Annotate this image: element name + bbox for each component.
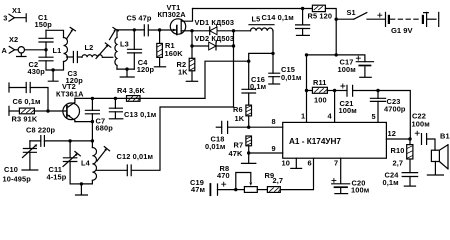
svg-text:L1: L1: [53, 46, 62, 55]
wire pin9: [249, 152, 283, 154]
capacitor C8: [41, 136, 45, 147]
node C14 top junction: [301, 7, 304, 10]
svg-text:100м: 100м: [412, 119, 430, 128]
svg-text:12: 12: [388, 129, 396, 138]
svg-text:C6 0,1м: C6 0,1м: [13, 97, 41, 106]
ground (R2): [186, 80, 197, 82]
wire C5 to VT1 gate: [160, 29, 177, 31]
node VD1 right junction: [232, 29, 235, 32]
svg-text:0,1м: 0,1м: [250, 82, 266, 91]
svg-text:47м: 47м: [191, 185, 205, 194]
node C7 top junction: [91, 97, 94, 100]
capacitor C20: [332, 178, 350, 193]
wire VT2 emitter: [75, 121, 93, 123]
wire VT2 collector feed (crosses VD column): [205, 61, 249, 98]
capacitor C17: [336, 55, 373, 77]
svg-text:2,7: 2,7: [393, 159, 404, 168]
svg-text:100: 100: [314, 96, 327, 105]
resistor R9: [257, 187, 280, 193]
svg-text:R10: R10: [391, 146, 405, 155]
wire collector rail: [75, 97, 205, 99]
svg-text:C12 0,01м: C12 0,01м: [117, 152, 154, 161]
capacitor C19: [210, 182, 235, 195]
wire L3 bottom rail: [117, 68, 134, 70]
svg-text:0,01м: 0,01м: [281, 73, 301, 82]
svg-text:7: 7: [334, 158, 338, 167]
wire VD column: [191, 31, 193, 46]
svg-text:X1: X1: [12, 6, 21, 15]
inductor L5: [234, 25, 275, 54]
ground (C20): [335, 193, 348, 195]
svg-text:5: 5: [372, 112, 376, 121]
connector X1: [9, 14, 26, 22]
node R7 bottom junction: [247, 151, 250, 154]
wire L1 bottom to ground node: [53, 62, 63, 71]
wire pin8: [249, 126, 283, 128]
capacitor C21: [335, 84, 378, 96]
wire bootstrap C21 to pin 12: [378, 91, 410, 140]
svg-text:КП302А: КП302А: [158, 10, 187, 19]
svg-text:1K: 1K: [178, 68, 188, 77]
ground (L3/C4): [120, 69, 134, 77]
connector X2: [9, 46, 26, 56]
svg-text:R3 91K: R3 91K: [12, 114, 38, 123]
capacitor C14: [296, 9, 310, 36]
ground (tank): [48, 70, 58, 81]
svg-text:3: 3: [3, 14, 7, 23]
capacitor C3: [73, 52, 82, 63]
wire C1 top to L1 top: [46, 30, 64, 37]
svg-text:G1 9V: G1 9V: [391, 26, 413, 35]
svg-text:X2: X2: [9, 35, 18, 44]
ground (R7): [242, 153, 256, 163]
wire L5 bottom to C16 column: [249, 53, 273, 89]
svg-text:6: 6: [308, 158, 312, 167]
svg-text:8: 8: [272, 117, 276, 126]
resistor R10: [407, 139, 413, 173]
switch S1: [335, 13, 386, 21]
svg-text:470: 470: [217, 171, 230, 180]
capacitor C13: [109, 98, 122, 118]
svg-text:C14 0,1м: C14 0,1м: [262, 13, 294, 22]
capacitor C5: [144, 25, 159, 36]
svg-text:10-495p: 10-495p: [3, 175, 32, 184]
capacitor C16: [242, 89, 256, 105]
ground (pin10): [291, 167, 302, 169]
svg-text:S1: S1: [347, 8, 356, 17]
svg-text:L4: L4: [81, 159, 91, 168]
wire antenna to C1/C2 node: [25, 49, 47, 51]
svg-text:100м: 100м: [339, 106, 357, 115]
wire pin 10 ground: [295, 158, 297, 168]
ground (L4/C11): [76, 184, 88, 195]
node R8/C19 junction: [234, 188, 237, 191]
svg-text:150p: 150p: [35, 20, 53, 29]
ground (C14): [297, 34, 310, 36]
capacitor C24: [402, 173, 417, 186]
node pin4/C21 junction: [333, 89, 336, 92]
capacitor C15: [269, 53, 280, 83]
resistor R1: [157, 30, 163, 66]
transistor VT1: [170, 9, 192, 35]
node emitter junction: [91, 120, 94, 123]
node L5 bottom junction: [271, 52, 274, 55]
node C23 top junction: [376, 89, 379, 92]
svg-text:4-15p: 4-15p: [47, 173, 67, 182]
capacitor C10 (tuning): [22, 141, 38, 170]
wire top L3 to C5: [117, 29, 144, 31]
node R10 top junction: [408, 137, 411, 140]
transistor VT2: [48, 98, 80, 121]
svg-text:100м: 100м: [338, 65, 356, 74]
node bottom ground junction: [80, 182, 83, 185]
svg-text:VD2 КД503: VD2 КД503: [195, 34, 235, 43]
svg-text:430p: 430p: [28, 67, 46, 76]
trimmer arrow L4: [97, 147, 110, 161]
inductor L1: [64, 38, 68, 62]
diode VD2: [192, 42, 234, 50]
wire pin 4: [334, 91, 336, 123]
resistor R5: [312, 5, 336, 19]
ground (R1): [154, 66, 165, 68]
svg-text:R6: R6: [233, 105, 243, 114]
ground (B1): [427, 174, 443, 176]
svg-text:120p: 120p: [137, 65, 155, 74]
op-amp IC A1 К174УН7: [283, 122, 387, 158]
capacitor C4: [128, 30, 142, 69]
ground (C24): [404, 185, 415, 187]
svg-text:C13 0,1м: C13 0,1м: [124, 110, 156, 119]
svg-text:L2: L2: [85, 43, 94, 52]
svg-text:A1 - К174УН7: A1 - К174УН7: [289, 137, 341, 146]
svg-text:0,1м: 0,1м: [383, 178, 399, 187]
battery G1: [378, 12, 439, 26]
node tank ground junction: [51, 68, 54, 71]
svg-text:КТ361А: КТ361А: [56, 90, 84, 99]
resistor R7: [246, 136, 252, 153]
capacitor C22: [415, 131, 435, 150]
svg-text:100м: 100м: [351, 186, 369, 195]
node supply junction: [335, 53, 338, 56]
trimmer arrow L3: [110, 28, 119, 40]
svg-text:1: 1: [301, 112, 305, 121]
svg-text:R4 3,6K: R4 3,6K: [117, 86, 145, 95]
svg-text:L3: L3: [120, 39, 129, 48]
resistor R4: [127, 96, 141, 102]
inductor L3: [115, 30, 117, 69]
node R11 left junction: [305, 89, 308, 92]
wire L1 tap to C3: [67, 56, 74, 58]
svg-text:0,01м: 0,01м: [205, 142, 225, 151]
node VT2 base junction: [46, 109, 49, 112]
wire pin 7: [340, 158, 342, 183]
node volume divider junction: [247, 126, 250, 129]
wire bottom rail C10-C8-C11-L4: [30, 140, 93, 142]
node C11 top junction: [68, 139, 71, 142]
svg-text:9: 9: [272, 144, 276, 153]
svg-text:1K: 1K: [235, 114, 245, 123]
ground (C13): [109, 118, 122, 120]
ground (C15): [269, 83, 280, 85]
wire pin 12: [386, 138, 410, 140]
capacitor C11 (trimmer): [63, 141, 80, 184]
capacitor C6: [9, 83, 48, 112]
speaker B1: [431, 145, 448, 175]
trimmer arrow L2: [96, 43, 111, 59]
svg-text:47K: 47K: [229, 149, 243, 158]
resistor R6: [246, 105, 252, 127]
capacitor C1: [39, 30, 53, 50]
diode VD1: [192, 27, 234, 35]
svg-text:L5: L5: [252, 15, 261, 24]
node L3/C4 ground junction: [125, 67, 128, 70]
svg-text:C5 47p: C5 47p: [127, 14, 152, 23]
inductor L2: [82, 55, 113, 58]
wire C11/L4 bottom: [70, 183, 81, 185]
svg-text:A: A: [2, 46, 8, 55]
inductor L4: [81, 141, 96, 184]
node VD1 left junction: [190, 29, 193, 32]
svg-text:4700p: 4700p: [384, 104, 406, 113]
svg-text:VD1 КД503: VD1 КД503: [195, 18, 235, 27]
node C13 top junction: [114, 97, 117, 100]
capacitor C18: [216, 121, 248, 133]
svg-text:R5 120: R5 120: [308, 12, 333, 21]
svg-text:B1: B1: [440, 132, 450, 141]
svg-text:2,7: 2,7: [273, 176, 284, 185]
wire supply column from S1: [335, 19, 337, 55]
capacitor C7: [85, 98, 99, 140]
svg-text:680p: 680p: [96, 124, 114, 133]
wire VD right column down: [233, 31, 235, 107]
svg-text:R11: R11: [313, 78, 327, 87]
node R1 top junction: [158, 28, 161, 31]
node C1/C2 junction: [44, 48, 47, 51]
resistor R11: [307, 87, 335, 93]
node VD2 left junction: [190, 44, 193, 47]
trimmer arrow L1: [67, 27, 76, 39]
wire pin 1 supply: [307, 55, 337, 123]
svg-text:C8 220p: C8 220p: [26, 125, 56, 134]
wire pin 6: [280, 158, 313, 189]
resistor R2: [189, 46, 195, 81]
potentiometer R8: [236, 173, 257, 193]
capacitor C23: [370, 91, 385, 123]
resistor R3: [9, 106, 48, 115]
svg-text:10: 10: [282, 158, 290, 167]
ground (C17): [360, 76, 371, 78]
wire drain rail to R5: [193, 8, 313, 10]
svg-text:160K: 160K: [165, 49, 184, 58]
node C4 top junction: [133, 28, 136, 31]
svg-text:C10: C10: [4, 165, 18, 174]
node VD2 right junction: [232, 44, 235, 47]
node L4 top junction: [91, 139, 94, 142]
node detector out to C16 wire: [247, 60, 250, 63]
capacitor C12: [96, 107, 233, 176]
capacitor C2: [39, 50, 53, 70]
